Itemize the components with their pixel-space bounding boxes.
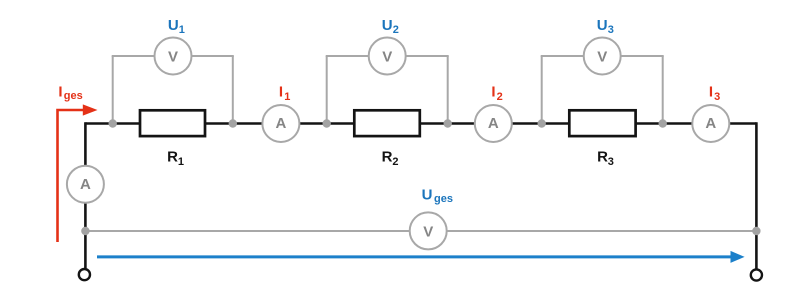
svg-text:U: U — [597, 17, 608, 34]
ammeter I2 — [475, 105, 512, 142]
node E (left of R3) — [538, 119, 546, 127]
node G (left, U_ges tap) — [81, 227, 89, 235]
wire U1 branch top-right segment — [191, 55, 234, 57]
label R2 — [382, 149, 399, 168]
svg-text:1: 1 — [284, 91, 290, 103]
wire U2 branch right riser — [447, 56, 449, 124]
svg-text:ges: ges — [64, 90, 83, 102]
node F (right of R3) — [659, 119, 667, 127]
terminal (bottom left) — [79, 269, 90, 280]
svg-text:R: R — [382, 149, 393, 166]
svg-text:V: V — [597, 48, 607, 65]
voltmeter U_ges — [410, 212, 447, 249]
svg-text:3: 3 — [608, 156, 614, 168]
svg-text:V: V — [382, 48, 392, 65]
voltage arrow U_ges direction (blue) — [97, 251, 745, 263]
svg-text:1: 1 — [179, 24, 185, 36]
wire U3 branch right riser — [662, 56, 664, 124]
svg-text:I: I — [709, 83, 713, 100]
resistor R1 — [140, 110, 205, 136]
svg-text:V: V — [168, 48, 178, 65]
label I_ges — [58, 84, 82, 103]
svg-text:R: R — [597, 149, 608, 166]
wire U3 branch top-right segment — [620, 55, 664, 57]
wire right vertical — [755, 122, 758, 269]
node A (left of R1) — [109, 119, 117, 127]
wire U3 branch left riser — [541, 56, 543, 124]
voltmeter U2 — [369, 38, 406, 75]
svg-text:I: I — [279, 83, 283, 100]
ammeter I3 — [692, 105, 729, 142]
svg-text:I: I — [58, 84, 62, 101]
svg-text:A: A — [275, 115, 286, 132]
svg-text:A: A — [80, 176, 91, 193]
current arrow I_ges (red) — [58, 104, 98, 242]
svg-text:V: V — [423, 223, 433, 240]
node C (left of R2) — [323, 119, 331, 127]
svg-text:U: U — [168, 17, 179, 34]
node H (right, U_ges tap) — [752, 227, 760, 235]
label R3 — [597, 149, 614, 168]
wire U2 branch top-right segment — [405, 55, 449, 57]
voltmeter U3 — [584, 38, 621, 75]
svg-text:U: U — [382, 17, 393, 34]
svg-text:3: 3 — [608, 24, 614, 36]
wire U2 branch left riser — [326, 56, 328, 124]
node B (right of R1) — [229, 119, 237, 127]
wire U1 branch top-left segment — [112, 55, 155, 57]
voltmeter U1 — [155, 38, 192, 75]
label I3 — [709, 83, 720, 102]
svg-text:I: I — [491, 83, 495, 100]
svg-text:1: 1 — [178, 156, 184, 168]
resistor R2 — [354, 110, 420, 136]
ammeter I_ges (left branch) — [67, 166, 104, 203]
svg-text:R: R — [167, 149, 178, 166]
wire U_ges measurement line (gray, bottom) — [85, 230, 756, 232]
svg-text:ges: ges — [434, 193, 453, 205]
svg-text:2: 2 — [497, 91, 503, 103]
svg-text:U: U — [422, 187, 433, 204]
wire U2 branch top-left segment — [326, 55, 369, 57]
svg-text:2: 2 — [393, 24, 399, 36]
label R1 — [167, 149, 184, 168]
svg-text:3: 3 — [714, 91, 720, 103]
terminal (bottom right) — [751, 269, 762, 280]
svg-text:A: A — [705, 115, 716, 132]
wire left vertical — [84, 122, 87, 268]
label U2 — [382, 17, 399, 36]
wire U3 branch top-left segment — [541, 55, 584, 57]
label I1 — [279, 83, 290, 102]
svg-text:2: 2 — [392, 156, 398, 168]
ammeter I1 — [262, 105, 299, 142]
wire main horizontal — [85, 122, 756, 125]
label I2 — [491, 83, 502, 102]
node D (right of R2) — [444, 119, 452, 127]
wire U1 branch left riser — [112, 56, 114, 124]
resistor R3 — [569, 110, 635, 136]
label U_ges — [422, 187, 453, 206]
svg-text:A: A — [488, 115, 499, 132]
label U3 — [597, 17, 614, 36]
wire U1 branch right riser — [232, 56, 234, 124]
label U1 — [168, 17, 185, 36]
